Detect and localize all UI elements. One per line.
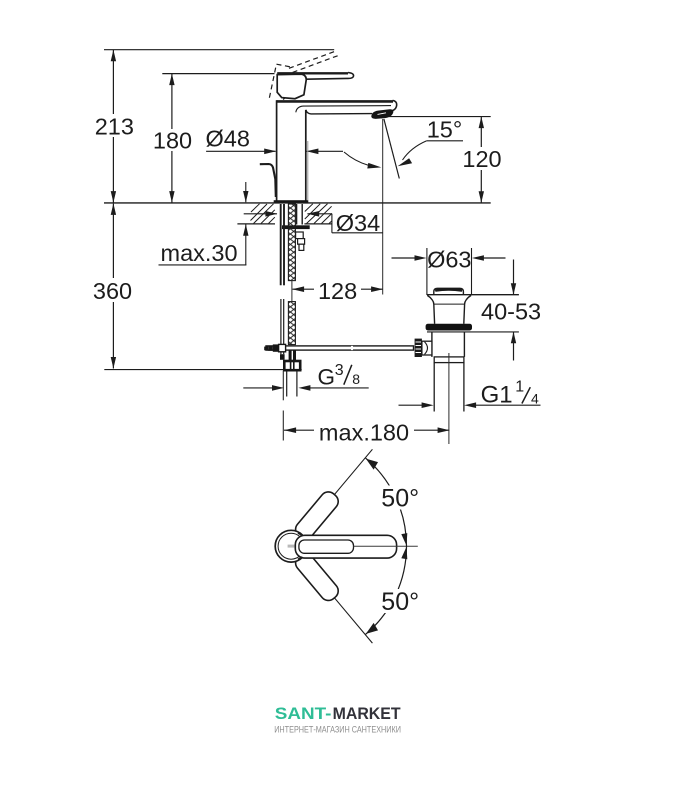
pop-up knurled knob (dark)	[415, 339, 422, 357]
svg-text:128: 128	[318, 278, 357, 304]
countertop hatching (left of shank)	[251, 204, 275, 224]
top view: small centre mark	[288, 545, 295, 548]
countertop underside line	[237, 223, 332, 225]
waste body below gasket	[427, 332, 519, 357]
top view: handle upper position (+50°)	[292, 443, 379, 542]
extension line down to max.180 (dashed end)	[282, 371, 284, 441]
dimension max.180	[284, 420, 450, 446]
wire: top extension line (handle raised level)	[104, 49, 334, 51]
svg-text:G: G	[318, 364, 336, 389]
rod end adjuster pieces	[264, 344, 285, 351]
node: faucet centreline through shank gap	[291, 281, 293, 302]
G3/8 coupling nut	[284, 361, 300, 370]
dimension Ø63 (waste flange)	[392, 247, 506, 295]
dimension 40-53 (deck to gasket)	[481, 260, 541, 361]
top view: handle middle position	[295, 533, 396, 559]
wire: spout outlet extension line (120 top)	[385, 116, 490, 118]
dimension 360 (depth below deck)	[90, 203, 135, 368]
dimension 128 (spout reach)	[292, 278, 383, 304]
svg-text:360: 360	[93, 278, 132, 304]
waste tail pipe	[434, 363, 464, 412]
svg-text:40-53: 40-53	[481, 299, 541, 325]
faucet handle base	[277, 74, 306, 99]
label 15° with curved leaders	[344, 117, 463, 169]
faucet base plate on deck (dark)	[274, 200, 309, 203]
dimension 213 (overall height)	[93, 50, 135, 203]
label max.30 with leader	[159, 182, 249, 266]
node: spout centreline (vertical)	[382, 119, 384, 295]
shank body in deck hole	[297, 204, 303, 225]
svg-text:ИНТЕРНЕТ-МАГАЗИН САНТЕХНИКИ: ИНТЕРНЕТ-МАГАЗИН САНТЕХНИКИ	[274, 724, 401, 735]
svg-text:4: 4	[531, 390, 539, 406]
faucet handle raised position (dashed)	[269, 51, 338, 99]
waste plug cap	[434, 288, 464, 294]
top view: 50° label (lower)	[379, 588, 422, 616]
label Ø48 with leader arrows	[206, 126, 344, 155]
countertop surface line	[104, 202, 491, 204]
top view: faucet body circle	[275, 530, 307, 562]
rod to shank clamp (dark strips)	[289, 350, 296, 361]
wire: handle-top extension line (180 level)	[162, 73, 274, 75]
svg-text:120: 120	[462, 146, 501, 172]
top view: centreline to the right	[354, 545, 418, 547]
pop-up knob shaft	[422, 341, 432, 355]
mounting nut under deck (dark)	[282, 225, 310, 229]
threaded shank (lower segment, cross-hatched)	[288, 302, 295, 345]
faucet handle lever	[277, 73, 353, 80]
top view: 50° label (upper)	[379, 485, 422, 513]
logo SANT-MARKET	[275, 704, 401, 723]
svg-text:180: 180	[153, 127, 192, 153]
faucet pop-up rod (rear, bent)	[260, 164, 276, 197]
svg-text:SANT-: SANT-	[275, 704, 332, 723]
shank fixing bracket	[296, 232, 305, 250]
top view: handle lower position (-50°)	[292, 550, 379, 649]
waste flange	[427, 295, 519, 324]
faucet aerator (dark)	[372, 110, 393, 119]
svg-text:Ø63: Ø63	[427, 247, 471, 273]
svg-text:50°: 50°	[381, 485, 419, 513]
dimension 180 (spout height)	[152, 74, 193, 203]
svg-text:50°: 50°	[381, 588, 419, 616]
G3/8 tail pipe	[287, 371, 297, 397]
waste gasket (dark band)	[426, 324, 472, 331]
svg-text:Ø34: Ø34	[336, 210, 380, 236]
svg-text:MARKET: MARKET	[333, 704, 401, 723]
svg-text:213: 213	[95, 114, 134, 140]
node: waste centreline	[448, 353, 450, 444]
supply hose (upper segment)	[281, 204, 284, 285]
svg-text:1: 1	[515, 379, 524, 396]
hose end cap	[280, 354, 285, 360]
countertop hatching (right of shank)	[305, 204, 332, 224]
pop-up actuator rod (horizontal)	[266, 346, 414, 350]
supply hose (lower segment)	[281, 299, 284, 354]
svg-text:Ø48: Ø48	[206, 126, 250, 152]
dimension 120 (outlet height)	[462, 117, 501, 203]
svg-text:8: 8	[352, 371, 360, 387]
wire: 15° water stream line	[384, 119, 399, 179]
top view: swing arc 50°/50°	[364, 458, 407, 635]
svg-text:max.180: max.180	[319, 420, 409, 446]
svg-text:G1: G1	[481, 382, 513, 409]
label Ø34 with box outline	[332, 210, 383, 236]
svg-text:15°: 15°	[427, 117, 463, 143]
faucet spout body	[277, 100, 397, 200]
threaded shank (upper segment, cross-hatched)	[288, 204, 295, 281]
logo tagline	[274, 724, 401, 735]
dimension Ø34 leader arrows	[244, 211, 332, 217]
label G 3/8 with leader arrows	[243, 362, 368, 391]
wire: 360 bottom reference line	[104, 369, 301, 371]
waste coupling ring	[434, 357, 464, 363]
svg-text:3: 3	[335, 362, 344, 379]
label G1 1/4 with leader arrows	[399, 379, 541, 409]
svg-text:max.30: max.30	[161, 240, 238, 266]
